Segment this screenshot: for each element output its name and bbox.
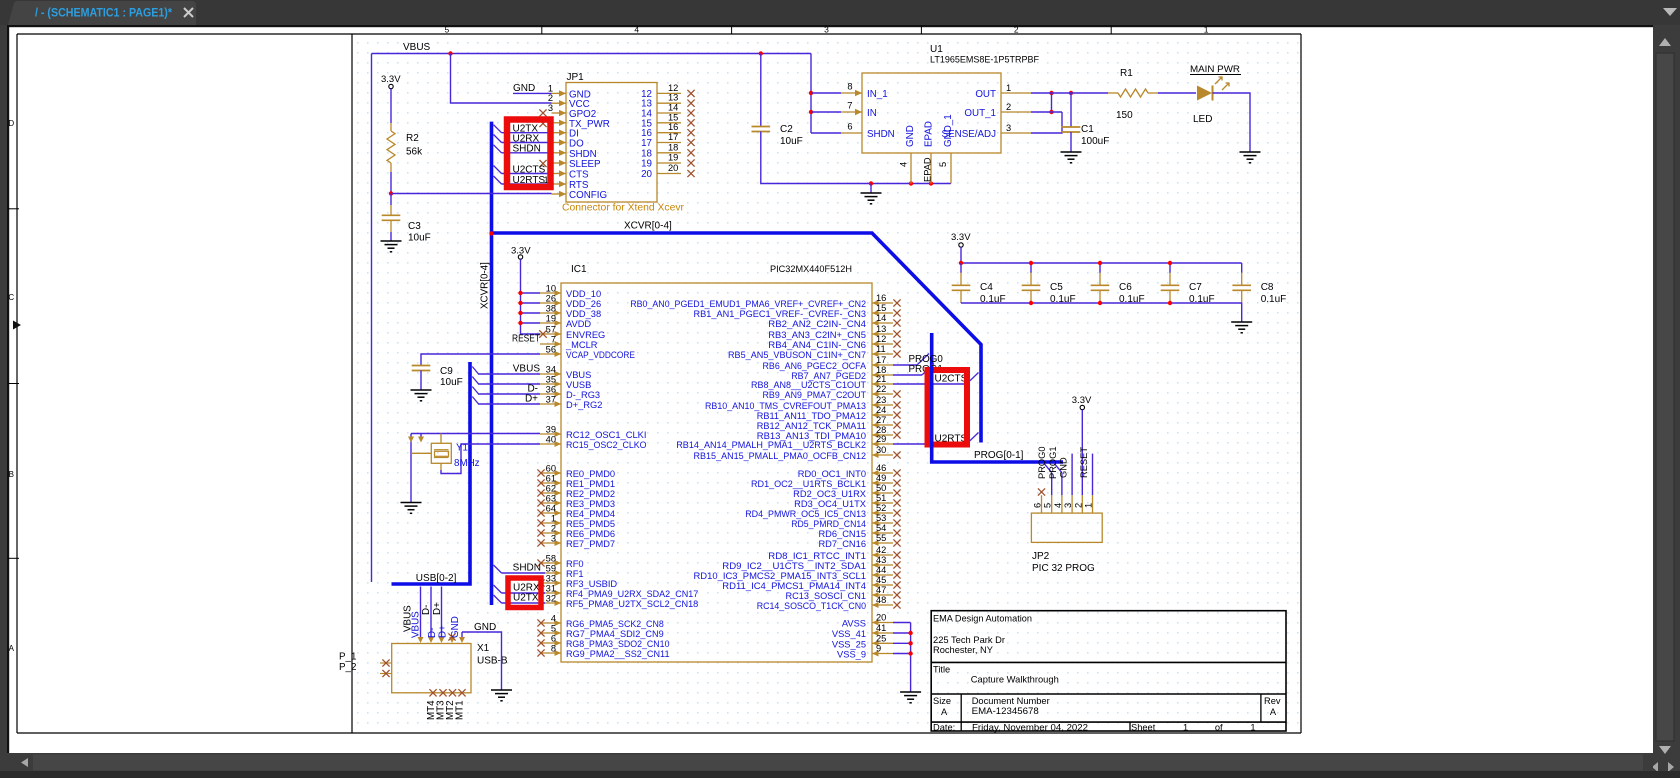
- svg-text:50: 50: [876, 483, 886, 493]
- svg-text:PROG[0-1]: PROG[0-1]: [974, 450, 1024, 461]
- svg-text:IN: IN: [867, 108, 877, 119]
- svg-text:USB[0-2]: USB[0-2]: [416, 573, 457, 584]
- svg-text:LT1965EMS8E-1P5TRPBF: LT1965EMS8E-1P5TRPBF: [930, 55, 1039, 65]
- svg-text:SHDN: SHDN: [867, 129, 895, 140]
- svg-text:RD8_IC1_RTCC_INT1: RD8_IC1_RTCC_INT1: [768, 551, 866, 561]
- svg-text:U2CTS: U2CTS: [513, 164, 546, 175]
- svg-text:RG8_PMA3_SDO2_CN10: RG8_PMA3_SDO2_CN10: [566, 639, 670, 649]
- svg-text:C1: C1: [1081, 124, 1094, 135]
- svg-text:63: 63: [546, 494, 556, 504]
- svg-text:VSS_41: VSS_41: [832, 629, 866, 639]
- svg-text:14: 14: [668, 103, 678, 113]
- svg-text:RB1_AN1_PGEC1_VREF-_CVREF-_CN3: RB1_AN1_PGEC1_VREF-_CVREF-_CN3: [694, 309, 867, 319]
- svg-text:RC15_OSC2_CLKO: RC15_OSC2_CLKO: [566, 440, 647, 450]
- svg-text:A: A: [941, 707, 948, 717]
- svg-text:RE2_PMD2: RE2_PMD2: [566, 489, 615, 499]
- svg-text:3.3V: 3.3V: [511, 246, 531, 257]
- svg-text:12: 12: [876, 334, 886, 344]
- svg-text:53: 53: [876, 513, 886, 523]
- svg-text:41: 41: [876, 623, 886, 633]
- svg-text:13: 13: [876, 324, 886, 334]
- svg-text:2: 2: [1073, 503, 1083, 508]
- svg-text:EMA-12345678: EMA-12345678: [972, 706, 1039, 716]
- svg-text:RD6_CN15: RD6_CN15: [818, 529, 866, 539]
- svg-text:61: 61: [546, 474, 556, 484]
- svg-text:10uF: 10uF: [780, 136, 803, 147]
- svg-text:4: 4: [1053, 503, 1063, 508]
- svg-text:2: 2: [1006, 102, 1011, 112]
- svg-text:RB5_AN5_VBUSON_C1IN+_CN7: RB5_AN5_VBUSON_C1IN+_CN7: [728, 350, 866, 360]
- svg-text:15: 15: [668, 112, 678, 122]
- svg-text:42: 42: [876, 545, 886, 555]
- svg-text:RF0: RF0: [566, 559, 584, 569]
- svg-text:8: 8: [551, 644, 556, 654]
- svg-text:D-_RG3: D-_RG3: [566, 390, 600, 400]
- svg-text:PIC32MX440F512H: PIC32MX440F512H: [770, 264, 852, 274]
- svg-text:52: 52: [876, 503, 886, 513]
- svg-text:23: 23: [876, 395, 886, 405]
- svg-text:4: 4: [899, 162, 909, 167]
- svg-text:VDD_10: VDD_10: [566, 289, 601, 299]
- svg-text:RB6_AN6_PGEC2_OCFA: RB6_AN6_PGEC2_OCFA: [763, 361, 867, 371]
- svg-text:19: 19: [668, 153, 678, 163]
- svg-text:RE0_PMD0: RE0_PMD0: [566, 469, 615, 479]
- svg-text:8: 8: [847, 82, 852, 92]
- svg-text:RE6_PMD6: RE6_PMD6: [566, 529, 615, 539]
- svg-text:33: 33: [546, 574, 556, 584]
- svg-text:RD2_OC3_U1RX: RD2_OC3_U1RX: [793, 489, 866, 499]
- svg-text:2: 2: [1014, 25, 1019, 35]
- svg-text:XCVR[0-4]: XCVR[0-4]: [480, 262, 491, 309]
- svg-text:20: 20: [876, 613, 886, 623]
- svg-text:RESET: RESET: [512, 334, 540, 345]
- svg-text:39: 39: [546, 425, 556, 435]
- svg-text:JP2: JP2: [1032, 551, 1050, 562]
- svg-text:ENVREG: ENVREG: [566, 330, 605, 340]
- svg-text:3: 3: [1006, 123, 1011, 133]
- svg-text:29: 29: [876, 434, 886, 444]
- svg-text:44: 44: [876, 565, 886, 575]
- svg-text:19: 19: [546, 314, 556, 324]
- svg-text:RB4_AN4_C1IN-_CN6: RB4_AN4_C1IN-_CN6: [768, 340, 866, 350]
- svg-text:100uF: 100uF: [1081, 136, 1109, 147]
- svg-text:R1: R1: [1120, 68, 1133, 79]
- svg-text:IN_1: IN_1: [867, 89, 888, 100]
- svg-text:5: 5: [938, 162, 948, 167]
- svg-text:VBUS: VBUS: [403, 42, 431, 53]
- svg-text:3: 3: [548, 103, 553, 113]
- svg-text:56: 56: [546, 345, 556, 355]
- svg-text:C: C: [8, 293, 14, 302]
- svg-text:7: 7: [551, 335, 556, 345]
- svg-text:U1: U1: [930, 44, 943, 55]
- svg-text:15: 15: [876, 303, 886, 313]
- svg-text:18: 18: [668, 142, 678, 152]
- svg-text:/ - (SCHEMATIC1 : PAGE1)*: / - (SCHEMATIC1 : PAGE1)*: [35, 6, 172, 20]
- svg-text:19: 19: [641, 159, 652, 170]
- svg-text:P_1: P_1: [339, 652, 356, 663]
- svg-text:D+_RG2: D+_RG2: [566, 400, 602, 410]
- svg-text:C7: C7: [1189, 282, 1202, 293]
- svg-text:1: 1: [1183, 722, 1188, 732]
- svg-text:0.1uF: 0.1uF: [980, 294, 1006, 305]
- svg-text:13: 13: [668, 93, 678, 103]
- svg-text:62: 62: [546, 484, 556, 494]
- svg-text:U2CTS: U2CTS: [935, 374, 968, 385]
- svg-text:36: 36: [546, 385, 556, 395]
- svg-text:1: 1: [551, 514, 556, 524]
- svg-text:Rev: Rev: [1264, 696, 1281, 706]
- svg-text:32: 32: [546, 594, 556, 604]
- svg-text:Title: Title: [933, 665, 950, 675]
- svg-text:RB3_AN3_C2IN+_CN5: RB3_AN3_C2IN+_CN5: [768, 330, 866, 340]
- svg-text:C6: C6: [1119, 282, 1132, 293]
- svg-text:CONFIG: CONFIG: [569, 190, 607, 201]
- svg-text:51: 51: [876, 493, 886, 503]
- svg-text:VUSB: VUSB: [566, 380, 591, 390]
- svg-text:C5: C5: [1050, 282, 1063, 293]
- svg-text:10uF: 10uF: [408, 233, 431, 244]
- svg-text:1: 1: [1006, 83, 1011, 93]
- svg-text:25: 25: [876, 633, 886, 643]
- svg-text:U2TX: U2TX: [513, 593, 539, 604]
- svg-text:RD11_IC4_PMCS1_PMA14_INT4: RD11_IC4_PMCS1_PMA14_INT4: [722, 581, 866, 591]
- svg-text:RC13_SOSCI_CN1: RC13_SOSCI_CN1: [786, 591, 867, 601]
- svg-text:RD0_OC1_INT0: RD0_OC1_INT0: [798, 469, 866, 479]
- svg-text:GND: GND: [1059, 457, 1069, 478]
- svg-text:Rochester, NY: Rochester, NY: [933, 645, 993, 655]
- svg-text:26: 26: [546, 294, 556, 304]
- svg-text:RB9_AN9_PMA7_C2OUT: RB9_AN9_PMA7_C2OUT: [763, 390, 867, 400]
- svg-text:OUT_1: OUT_1: [964, 108, 996, 119]
- svg-text:A: A: [9, 644, 15, 653]
- svg-text:RD3_OC4_U1TX: RD3_OC4_U1TX: [794, 499, 866, 509]
- svg-text:RG7_PMA4_SDI2_CN9: RG7_PMA4_SDI2_CN9: [566, 629, 664, 639]
- svg-text:XCVR[0-4]: XCVR[0-4]: [624, 221, 672, 232]
- svg-text:24: 24: [876, 405, 886, 415]
- svg-text:17: 17: [876, 355, 886, 365]
- svg-text:57: 57: [546, 325, 556, 335]
- svg-text:Friday, November 04, 2022: Friday, November 04, 2022: [972, 722, 1088, 732]
- svg-text:C2: C2: [780, 124, 793, 135]
- svg-text:RB11_AN11_TDO_PMA12: RB11_AN11_TDO_PMA12: [757, 411, 866, 421]
- svg-text:RF4_PMA9_U2RX_SDA2_CN17: RF4_PMA9_U2RX_SDA2_CN17: [566, 589, 698, 599]
- svg-text:SHDN: SHDN: [513, 563, 541, 574]
- svg-text:3.3V: 3.3V: [951, 232, 971, 243]
- svg-text:PIC 32 PROG: PIC 32 PROG: [1032, 563, 1095, 574]
- svg-text:6: 6: [551, 634, 556, 644]
- svg-text:RD9_IC2__U1CTS__INT2_SDA1: RD9_IC2__U1CTS__INT2_SDA1: [722, 561, 866, 571]
- svg-text:27: 27: [876, 415, 886, 425]
- svg-text:58: 58: [546, 554, 556, 564]
- svg-text:MT1: MT1: [455, 700, 466, 720]
- svg-text:5: 5: [551, 624, 556, 634]
- svg-text:Sheet: Sheet: [1131, 722, 1156, 732]
- svg-text:1: 1: [1204, 25, 1209, 35]
- svg-text:RF5_PMA8_U2TX_SCL2_CN18: RF5_PMA8_U2TX_SCL2_CN18: [566, 599, 698, 609]
- svg-text:GND: GND: [905, 125, 916, 147]
- svg-text:48: 48: [876, 595, 886, 605]
- svg-text:Capture Walkthrough: Capture Walkthrough: [971, 675, 1059, 685]
- svg-text:56k: 56k: [406, 147, 423, 158]
- svg-text:USB-B: USB-B: [477, 656, 508, 667]
- svg-text:D+: D+: [438, 625, 449, 638]
- svg-text:GND: GND: [450, 616, 461, 638]
- svg-text:35: 35: [546, 375, 556, 385]
- svg-text:RB12_AN12_TCK_PMA11: RB12_AN12_TCK_PMA11: [757, 421, 866, 431]
- svg-text:VDD_26: VDD_26: [566, 299, 601, 309]
- svg-text:D-: D-: [427, 628, 438, 638]
- svg-text:JP1: JP1: [567, 72, 585, 83]
- svg-text:A: A: [1270, 707, 1277, 717]
- svg-text:21: 21: [876, 374, 886, 384]
- svg-text:RB2_AN2_C2IN-_CN4: RB2_AN2_C2IN-_CN4: [768, 319, 866, 329]
- svg-text:RD5_PMRD_CN14: RD5_PMRD_CN14: [791, 519, 866, 529]
- svg-text:RD7_CN16: RD7_CN16: [818, 539, 866, 549]
- svg-text:RG6_PMA5_SCK2_CN8: RG6_PMA5_SCK2_CN8: [566, 619, 664, 629]
- svg-text:17: 17: [668, 132, 678, 142]
- svg-text:14: 14: [876, 313, 886, 323]
- svg-text:GND: GND: [474, 622, 496, 633]
- svg-text:16: 16: [668, 122, 678, 132]
- svg-text:47: 47: [876, 585, 886, 595]
- svg-text:AVSS: AVSS: [842, 619, 866, 629]
- svg-text:VSS_25: VSS_25: [832, 639, 866, 649]
- svg-text:RG9_PMA2__SS2_CN11: RG9_PMA2__SS2_CN11: [566, 649, 670, 659]
- svg-text:of: of: [1215, 722, 1223, 732]
- svg-text:12: 12: [668, 83, 678, 93]
- svg-text:3: 3: [551, 534, 556, 544]
- svg-text:30: 30: [876, 445, 886, 455]
- svg-text:RB8_AN8__U2CTS_C1OUT: RB8_AN8__U2CTS_C1OUT: [751, 380, 866, 390]
- svg-text:C9: C9: [440, 366, 453, 377]
- svg-text:RD1_OC2__U1RTS_BCLK1: RD1_OC2__U1RTS_BCLK1: [751, 479, 866, 489]
- svg-text:RE3_PMD3: RE3_PMD3: [566, 499, 615, 509]
- svg-text:150: 150: [1116, 110, 1133, 121]
- svg-text:RB0_AN0_PGED1_EMUD1_PMA6_VREF+: RB0_AN0_PGED1_EMUD1_PMA6_VREF+_CVREF+_CN…: [630, 299, 866, 309]
- svg-text:VBUS: VBUS: [513, 364, 541, 375]
- svg-text:Date:: Date:: [933, 722, 955, 732]
- svg-text:D-: D-: [421, 605, 432, 615]
- svg-text:VSS_9: VSS_9: [837, 650, 866, 660]
- svg-text:22: 22: [876, 384, 886, 394]
- svg-text:0.1uF: 0.1uF: [1050, 294, 1076, 305]
- svg-text:RE4_PMD4: RE4_PMD4: [566, 509, 615, 519]
- svg-text:38: 38: [546, 304, 556, 314]
- svg-text:CTS: CTS: [569, 170, 589, 181]
- svg-text:EPAD: EPAD: [923, 157, 933, 182]
- svg-text:16: 16: [876, 293, 886, 303]
- svg-text:P_2: P_2: [339, 662, 356, 673]
- svg-text:_MCLR: _MCLR: [565, 340, 598, 350]
- svg-text:R2: R2: [406, 133, 419, 144]
- svg-text:43: 43: [876, 555, 886, 565]
- svg-text:0.1uF: 0.1uF: [1119, 294, 1145, 305]
- svg-text:10: 10: [546, 284, 556, 294]
- svg-text:20: 20: [668, 163, 678, 173]
- svg-text:3: 3: [824, 25, 829, 35]
- svg-text:225 Tech Park Dr: 225 Tech Park Dr: [933, 635, 1005, 645]
- svg-text:D: D: [8, 119, 14, 128]
- svg-text:VBUS: VBUS: [411, 611, 422, 638]
- svg-text:SLEEP: SLEEP: [569, 159, 601, 170]
- svg-text:LED: LED: [1193, 114, 1212, 125]
- svg-text:0.1uF: 0.1uF: [1189, 294, 1215, 305]
- svg-text:GND_1: GND_1: [943, 114, 954, 147]
- svg-text:6: 6: [1033, 503, 1043, 508]
- svg-text:1: 1: [1250, 722, 1255, 732]
- svg-text:EMA Design Automation: EMA Design Automation: [933, 614, 1032, 624]
- svg-text:0.1uF: 0.1uF: [1261, 294, 1287, 305]
- svg-text:5: 5: [445, 25, 450, 35]
- svg-text:VDD_38: VDD_38: [566, 309, 601, 319]
- svg-text:RE5_PMD5: RE5_PMD5: [566, 519, 615, 529]
- svg-text:RESET: RESET: [1079, 447, 1089, 478]
- svg-text:6: 6: [847, 122, 852, 132]
- svg-text:10uF: 10uF: [440, 377, 463, 388]
- svg-text:GND: GND: [513, 83, 535, 94]
- svg-text:3.3V: 3.3V: [1072, 395, 1092, 406]
- svg-text:2: 2: [551, 524, 556, 534]
- svg-text:RB15_AN15_PMALL_PMA0_OCFB_CN12: RB15_AN15_PMALL_PMA0_OCFB_CN12: [694, 451, 867, 461]
- svg-text:Y1: Y1: [456, 443, 468, 454]
- svg-text:31: 31: [546, 584, 556, 594]
- svg-text:8MHz: 8MHz: [454, 458, 480, 469]
- svg-text:11: 11: [876, 344, 886, 354]
- svg-text:2: 2: [548, 93, 553, 103]
- svg-text:9: 9: [876, 644, 881, 654]
- svg-text:Document Number: Document Number: [972, 696, 1050, 706]
- svg-text:C3: C3: [408, 221, 421, 232]
- svg-text:4: 4: [551, 614, 556, 624]
- svg-text:49: 49: [876, 473, 886, 483]
- svg-text:45: 45: [876, 575, 886, 585]
- svg-text:RB10_AN10_TMS_CVREFOUT_PMA13: RB10_AN10_TMS_CVREFOUT_PMA13: [705, 401, 866, 411]
- svg-text:D+: D+: [432, 602, 443, 615]
- svg-text:MAIN PWR: MAIN PWR: [1190, 64, 1240, 75]
- svg-text:PROG1: PROG1: [1048, 446, 1058, 479]
- svg-text:RB14_AN14_PMALH_PMA1__U2RTS_BC: RB14_AN14_PMALH_PMA1__U2RTS_BCLK2: [676, 440, 866, 450]
- svg-text:40: 40: [546, 435, 556, 445]
- svg-text:AVDD: AVDD: [566, 319, 591, 329]
- svg-text:C4: C4: [980, 282, 993, 293]
- svg-text:5: 5: [1043, 503, 1053, 508]
- svg-text:RC14_SOSCO_T1CK_CN0: RC14_SOSCO_T1CK_CN0: [757, 601, 866, 611]
- svg-text:VCAP_VDDCORE: VCAP_VDDCORE: [566, 350, 635, 360]
- svg-text:IC1: IC1: [571, 264, 587, 275]
- svg-text:59: 59: [546, 564, 556, 574]
- svg-text:4: 4: [634, 25, 639, 35]
- svg-text:EPAD: EPAD: [924, 121, 935, 147]
- svg-text:RC12_OSC1_CLKI: RC12_OSC1_CLKI: [566, 430, 647, 440]
- svg-text:RE1_PMD1: RE1_PMD1: [566, 479, 615, 489]
- svg-text:64: 64: [546, 504, 556, 514]
- svg-text:RF1: RF1: [566, 569, 584, 579]
- svg-text:PROG0: PROG0: [1037, 446, 1047, 479]
- svg-text:37: 37: [546, 395, 556, 405]
- svg-text:X1: X1: [477, 643, 490, 654]
- svg-text:20: 20: [641, 169, 652, 180]
- svg-text:7: 7: [847, 101, 852, 111]
- svg-text:34: 34: [546, 365, 556, 375]
- svg-text:3: 3: [1063, 503, 1073, 508]
- svg-text:3.3V: 3.3V: [381, 74, 401, 85]
- svg-text:54: 54: [876, 523, 886, 533]
- svg-text:55: 55: [876, 533, 886, 543]
- svg-text:D+: D+: [525, 394, 538, 405]
- svg-text:OUT: OUT: [975, 89, 996, 100]
- svg-text:C8: C8: [1261, 282, 1274, 293]
- svg-text:RE7_PMD7: RE7_PMD7: [566, 539, 615, 549]
- svg-text:Connector for Xtend Xcevr: Connector for Xtend Xcevr: [562, 203, 685, 214]
- svg-text:1: 1: [548, 83, 553, 93]
- svg-text:VBUS: VBUS: [566, 370, 591, 380]
- svg-text:46: 46: [876, 463, 886, 473]
- svg-text:1: 1: [1084, 503, 1094, 508]
- svg-text:RD10_IC3_PMCS2_PMA15_INT3_SCL1: RD10_IC3_PMCS2_PMA15_INT3_SCL1: [694, 571, 867, 581]
- svg-text:RD4_PMWR_OC5_IC5_CN13: RD4_PMWR_OC5_IC5_CN13: [745, 509, 866, 519]
- svg-text:B: B: [9, 470, 14, 479]
- svg-text:60: 60: [546, 464, 556, 474]
- svg-text:Size: Size: [933, 696, 951, 706]
- svg-text:SHDN: SHDN: [513, 144, 541, 155]
- svg-text:RF3_USBID: RF3_USBID: [566, 579, 617, 589]
